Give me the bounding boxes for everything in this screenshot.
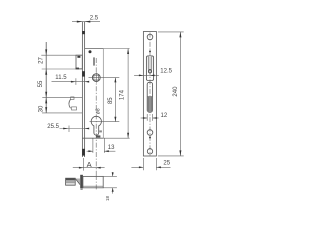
svg-text:12.5: 12.5: [160, 69, 172, 75]
svg-text:18: 18: [105, 196, 110, 202]
svg-text:2.5: 2.5: [90, 16, 99, 22]
svg-text:13: 13: [108, 145, 115, 151]
svg-text:85: 85: [108, 97, 114, 104]
svg-text:174: 174: [119, 89, 125, 100]
svg-text:ø8: ø8: [96, 108, 102, 114]
svg-text:55: 55: [38, 80, 44, 87]
svg-text:25.5: 25.5: [47, 124, 59, 130]
svg-text:240: 240: [173, 86, 179, 97]
svg-text:27: 27: [39, 57, 45, 64]
svg-text:11.5: 11.5: [55, 75, 67, 81]
svg-text:30: 30: [39, 105, 45, 112]
svg-text:12: 12: [161, 113, 168, 119]
svg-text:A: A: [87, 160, 92, 169]
svg-text:25: 25: [163, 161, 170, 167]
